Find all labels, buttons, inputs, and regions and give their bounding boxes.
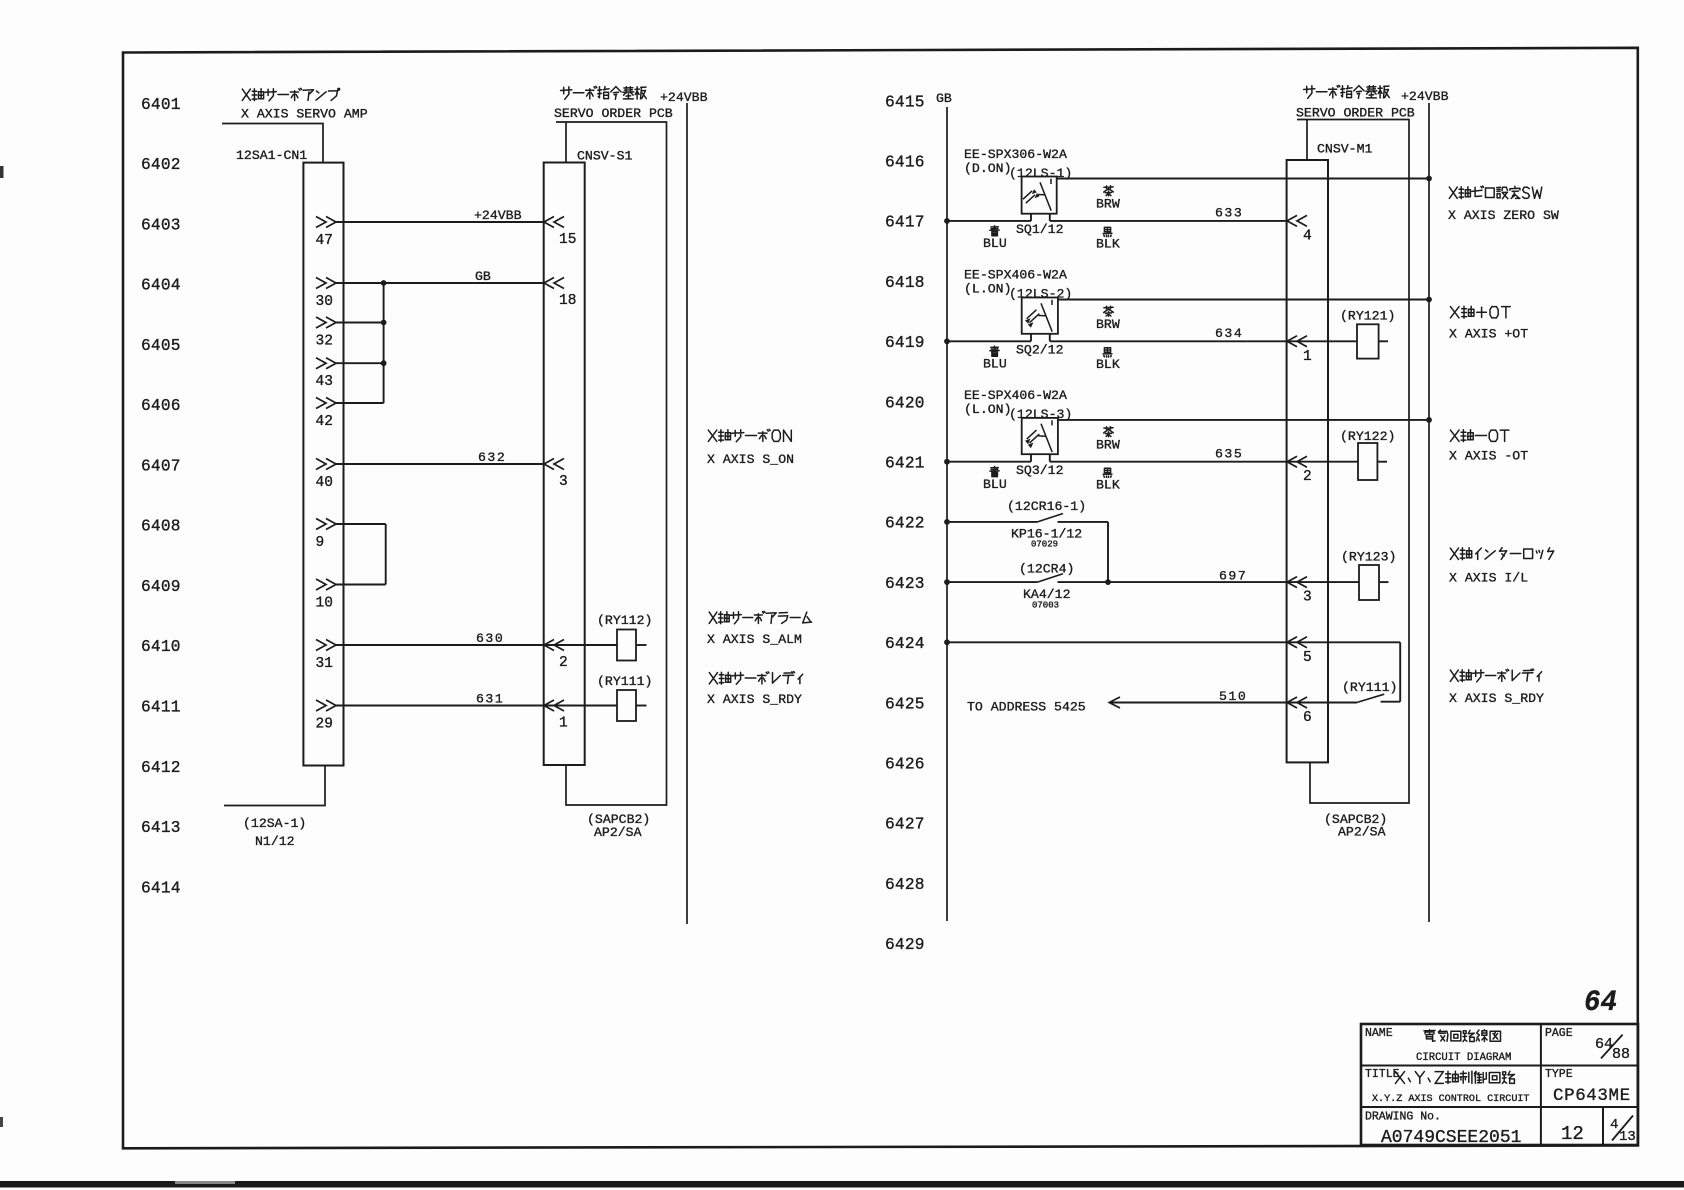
svg-text:(RY111): (RY111) bbox=[597, 674, 652, 689]
svg-text:3: 3 bbox=[559, 474, 568, 490]
svg-text:(RY111): (RY111) bbox=[1342, 680, 1397, 695]
svg-text:6417: 6417 bbox=[885, 214, 925, 232]
GB bus (right half) bbox=[946, 107, 948, 921]
wire pin5 loop down bbox=[1399, 642, 1401, 701]
wire color labels SQ1 bbox=[1104, 186, 1114, 196]
wire 635 BLK SQ3 to pin2 bbox=[1049, 454, 1051, 462]
svg-text:X.Y.Z AXIS CONTROL CIRCUIT: X.Y.Z AXIS CONTROL CIRCUIT bbox=[1372, 1094, 1530, 1105]
svg-text:6410: 6410 bbox=[141, 638, 181, 656]
svg-text:TYPE: TYPE bbox=[1545, 1068, 1573, 1081]
servo amp outline bottom bbox=[224, 766, 325, 806]
wire bus pins30-42 bbox=[383, 283, 385, 403]
svg-text:633: 633 bbox=[1215, 206, 1243, 221]
svg-text:6401: 6401 bbox=[141, 96, 181, 114]
svg-text:AP2/SA: AP2/SA bbox=[1338, 825, 1386, 840]
svg-text:(12CR16-1): (12CR16-1) bbox=[1007, 499, 1086, 514]
svg-text:6413: 6413 bbox=[141, 819, 181, 837]
svg-text:635: 635 bbox=[1215, 446, 1243, 461]
svg-text:6416: 6416 bbox=[885, 154, 925, 172]
svg-text:CIRCUIT DIAGRAM: CIRCUIT DIAGRAM bbox=[1416, 1052, 1511, 1064]
title block frame bbox=[1361, 1024, 1638, 1145]
junction node pin30 bbox=[381, 280, 387, 286]
svg-text:X AXIS +OT: X AXIS +OT bbox=[1449, 327, 1528, 342]
servo order PCB label (left) bbox=[561, 86, 647, 99]
servo order PCB outline (left) bbox=[556, 122, 667, 805]
svg-text:SQ2/12: SQ2/12 bbox=[1016, 342, 1063, 357]
wire pin9 stub bbox=[336, 523, 386, 525]
svg-text:EE-SPX406-W2A: EE-SPX406-W2A bbox=[964, 388, 1067, 403]
svg-text:6421: 6421 bbox=[885, 455, 925, 473]
wire pin32 stub bbox=[336, 322, 384, 324]
svg-text:6419: 6419 bbox=[885, 334, 925, 352]
svg-text:BLU: BLU bbox=[983, 236, 1007, 251]
pin 1 of CNSV-S1 bbox=[544, 700, 564, 711]
svg-text:6426: 6426 bbox=[885, 756, 925, 774]
pin 10 of 12SA1-CN1 bbox=[316, 579, 336, 590]
svg-text:NAME: NAME bbox=[1365, 1027, 1393, 1040]
wire SQ2 top to +24VBB bus bbox=[1058, 299, 1429, 301]
pin 18 of CNSV-S1 bbox=[544, 278, 564, 289]
pin 30 of 12SA1-CN1 bbox=[316, 278, 336, 289]
junction node pin32 bbox=[381, 320, 387, 326]
svg-text:(L.ON): (L.ON) bbox=[964, 402, 1011, 417]
svg-text:EE-SPX306-W2A: EE-SPX306-W2A bbox=[964, 147, 1067, 162]
wire 510 to address 5425 bbox=[1109, 702, 1357, 704]
svg-text:X AXIS -OT: X AXIS -OT bbox=[1449, 449, 1528, 464]
wire BLU SQ3 6421 bbox=[947, 461, 1031, 463]
junction 6423 loop bbox=[1105, 579, 1111, 585]
pin 43 of 12SA1-CN1 bbox=[316, 358, 336, 369]
svg-text:BLU: BLU bbox=[983, 477, 1007, 492]
wire 697 to pin3 bbox=[1058, 581, 1288, 583]
pin 6 of CNSV-M1 bbox=[1287, 697, 1307, 708]
junction GB 6419 bbox=[944, 338, 950, 344]
svg-text:43: 43 bbox=[316, 374, 333, 390]
svg-text:(12CR4): (12CR4) bbox=[1019, 562, 1074, 577]
svg-text:5: 5 bbox=[1303, 650, 1312, 666]
svg-text:X AXIS S_ALM: X AXIS S_ALM bbox=[707, 632, 802, 647]
svg-text:PAGE: PAGE bbox=[1545, 1027, 1573, 1040]
svg-text:X AXIS I/L: X AXIS I/L bbox=[1449, 571, 1528, 586]
wire pin10 stub bbox=[336, 584, 386, 586]
junction node pin43 bbox=[381, 360, 387, 366]
svg-text:07029: 07029 bbox=[1031, 540, 1058, 550]
svg-text:18: 18 bbox=[559, 293, 576, 309]
svg-text:+24VBB: +24VBB bbox=[660, 90, 708, 105]
pin 4 of CNSV-M1 bbox=[1287, 215, 1307, 226]
svg-text:SQ3/12: SQ3/12 bbox=[1016, 463, 1063, 478]
junction on +24VBB bus (6418) bbox=[1426, 297, 1432, 303]
wire color labels SQ3 bbox=[1104, 427, 1114, 437]
junction GB 6423 bbox=[1037, 574, 1063, 582]
svg-text:X AXIS SERVO AMP: X AXIS SERVO AMP bbox=[241, 107, 368, 122]
svg-text:DRAWING No.: DRAWING No. bbox=[1365, 1111, 1441, 1124]
+24VBB bus (right half) bbox=[1428, 103, 1430, 922]
svg-text:6429: 6429 bbox=[885, 936, 925, 954]
label X axis +OT bbox=[1450, 306, 1510, 318]
svg-text:SERVO ORDER PCB: SERVO ORDER PCB bbox=[1296, 106, 1415, 121]
wire 630 6410 bbox=[336, 644, 617, 646]
svg-text:6403: 6403 bbox=[141, 216, 181, 234]
svg-text:BLK: BLK bbox=[1096, 237, 1120, 252]
svg-text:6405: 6405 bbox=[141, 337, 181, 355]
svg-text:(L.ON): (L.ON) bbox=[964, 282, 1011, 297]
wire +24VBB 6403 bbox=[336, 221, 544, 223]
svg-text:6428: 6428 bbox=[885, 876, 925, 894]
svg-text:(RY112): (RY112) bbox=[597, 613, 652, 628]
label X axis zero SW bbox=[1449, 186, 1542, 199]
svg-text:1: 1 bbox=[1303, 349, 1312, 365]
svg-text:(12SA-1): (12SA-1) bbox=[243, 816, 306, 831]
svg-text:12: 12 bbox=[1561, 1123, 1584, 1145]
svg-text:A0749CSEE2051: A0749CSEE2051 bbox=[1381, 1128, 1521, 1148]
svg-text:632: 632 bbox=[478, 450, 506, 465]
svg-text:SQ1/12: SQ1/12 bbox=[1016, 222, 1063, 237]
svg-text:31: 31 bbox=[316, 656, 333, 672]
svg-text:40: 40 bbox=[316, 475, 333, 491]
svg-text:BLU: BLU bbox=[983, 356, 1007, 371]
wire pin43 stub bbox=[336, 362, 384, 364]
pin 32 of 12SA1-CN1 bbox=[316, 317, 336, 328]
label X axis -OT bbox=[1450, 430, 1509, 442]
pin 9 of 12SA1-CN1 bbox=[316, 519, 336, 530]
svg-text:47: 47 bbox=[316, 233, 333, 249]
svg-text:6424: 6424 bbox=[885, 635, 925, 653]
pin 42 of 12SA1-CN1 bbox=[316, 398, 336, 409]
svg-text:X AXIS S_RDY: X AXIS S_RDY bbox=[1449, 691, 1544, 706]
svg-text:631: 631 bbox=[476, 692, 504, 707]
svg-text:(RY123): (RY123) bbox=[1341, 550, 1396, 565]
svg-text:6: 6 bbox=[1303, 710, 1312, 726]
svg-text:BRW: BRW bbox=[1096, 317, 1120, 332]
wire GB 6404 bbox=[336, 282, 544, 284]
svg-text:6420: 6420 bbox=[885, 394, 925, 412]
pin 3 of CNSV-M1 bbox=[1287, 577, 1307, 588]
wire 634 BLK SQ2 to pin1 bbox=[1049, 334, 1051, 342]
svg-text:TO ADDRESS 5425: TO ADDRESS 5425 bbox=[967, 700, 1086, 715]
svg-text:CNSV-S1: CNSV-S1 bbox=[577, 149, 632, 164]
svg-text:64: 64 bbox=[1584, 986, 1617, 1020]
svg-text:30: 30 bbox=[316, 294, 333, 310]
svg-text:X AXIS S_RDY: X AXIS S_RDY bbox=[707, 692, 802, 707]
+24VBB bus (left half) bbox=[686, 103, 688, 924]
wire 633 BLK SQ1 to pin4 bbox=[1049, 214, 1051, 221]
svg-text:N1/12: N1/12 bbox=[255, 834, 295, 849]
svg-text:+24VBB: +24VBB bbox=[474, 208, 522, 223]
pin 29 of 12SA1-CN1 bbox=[316, 700, 336, 711]
svg-text:CNSV-M1: CNSV-M1 bbox=[1317, 142, 1372, 157]
svg-text:X AXIS S_ON: X AXIS S_ON bbox=[707, 452, 794, 467]
X axis servo amp label bbox=[242, 88, 337, 101]
pin 47 of 12SA1-CN1 bbox=[316, 217, 336, 228]
svg-text:697: 697 bbox=[1219, 569, 1247, 584]
svg-text:2: 2 bbox=[559, 655, 568, 671]
wire pin42 stub bbox=[336, 402, 384, 404]
junction GB 6421 bbox=[944, 459, 950, 465]
svg-text:4: 4 bbox=[1610, 1117, 1618, 1133]
limit switch SQ3/12 symbol bbox=[1022, 418, 1058, 454]
svg-text:CP643ME: CP643ME bbox=[1553, 1086, 1631, 1106]
servo order PCB label (right) bbox=[1304, 85, 1390, 98]
svg-text:AP2/SA: AP2/SA bbox=[594, 825, 642, 840]
svg-text:GB: GB bbox=[475, 269, 491, 284]
svg-text:12SA1-CN1: 12SA1-CN1 bbox=[236, 148, 307, 163]
pin 31 of 12SA1-CN1 bbox=[316, 640, 336, 651]
svg-text:3: 3 bbox=[1303, 590, 1312, 606]
svg-text:6407: 6407 bbox=[141, 457, 181, 475]
label X axis S_RDY (right) bbox=[1450, 669, 1541, 682]
junction GB 6417 bbox=[944, 218, 950, 224]
svg-text:634: 634 bbox=[1215, 326, 1243, 341]
wire 632 6407 bbox=[336, 463, 544, 465]
svg-text:6425: 6425 bbox=[885, 695, 925, 713]
svg-text:BLK: BLK bbox=[1096, 477, 1120, 492]
wire color labels SQ2 bbox=[1104, 306, 1114, 316]
svg-text:1: 1 bbox=[559, 716, 568, 732]
wire SQ3 top to +24VBB bus bbox=[1058, 419, 1429, 421]
svg-text:6402: 6402 bbox=[141, 156, 181, 174]
limit switch SQ1/12 symbol bbox=[1022, 177, 1057, 214]
svg-text:6404: 6404 bbox=[141, 277, 181, 295]
scan edge strip bbox=[0, 1181, 1684, 1188]
pin 15 of CNSV-S1 bbox=[544, 217, 564, 228]
junction GB 6422 bbox=[1037, 514, 1063, 522]
pin 1 of CNSV-M1 bbox=[1287, 336, 1307, 347]
pin 3 of CNSV-S1 bbox=[544, 459, 564, 470]
svg-text:9: 9 bbox=[316, 535, 325, 551]
svg-text:6415: 6415 bbox=[885, 93, 925, 111]
svg-text:88: 88 bbox=[1612, 1046, 1630, 1063]
wire jumper pins9-10 bbox=[385, 524, 387, 585]
label X axis S_RDY (left) bbox=[709, 672, 802, 685]
svg-text:15: 15 bbox=[559, 232, 576, 248]
svg-text:+24VBB: +24VBB bbox=[1401, 89, 1449, 104]
svg-text:6408: 6408 bbox=[141, 518, 181, 536]
pin 5 of CNSV-M1 bbox=[1287, 637, 1307, 648]
svg-text:2: 2 bbox=[1303, 469, 1312, 485]
svg-text:6418: 6418 bbox=[885, 274, 925, 292]
pin 2 of CNSV-M1 bbox=[1287, 456, 1307, 467]
svg-text:10: 10 bbox=[316, 596, 333, 612]
svg-text:6406: 6406 bbox=[141, 397, 181, 415]
svg-text:(D.ON): (D.ON) bbox=[964, 161, 1011, 176]
connector 12SA1-CN1 bbox=[303, 163, 343, 766]
svg-text:32: 32 bbox=[316, 334, 333, 350]
svg-text:SERVO ORDER PCB: SERVO ORDER PCB bbox=[554, 106, 673, 121]
wire BLU SQ1 6417 bbox=[947, 220, 1031, 222]
pin 2 of CNSV-S1 bbox=[544, 640, 564, 651]
svg-text:630: 630 bbox=[476, 631, 504, 646]
svg-text:07003: 07003 bbox=[1032, 601, 1059, 611]
svg-text:510: 510 bbox=[1219, 689, 1247, 704]
connector CNSV-S1 bbox=[544, 163, 585, 766]
svg-text:(RY121): (RY121) bbox=[1340, 308, 1395, 323]
wire loop 6422-6423 bbox=[1107, 522, 1109, 582]
svg-text:BRW: BRW bbox=[1096, 437, 1120, 452]
svg-text:6423: 6423 bbox=[885, 575, 925, 593]
scan specks bbox=[0, 166, 4, 178]
wire SQ1 top to +24VBB bus bbox=[1057, 178, 1429, 180]
label X axis interlock bbox=[1450, 548, 1553, 560]
pin 40 of 12SA1-CN1 bbox=[316, 459, 336, 470]
svg-text:BLK: BLK bbox=[1096, 357, 1120, 372]
svg-text:6409: 6409 bbox=[141, 578, 181, 596]
svg-text:EE-SPX406-W2A: EE-SPX406-W2A bbox=[964, 268, 1067, 283]
svg-text:6427: 6427 bbox=[885, 816, 925, 834]
svg-text:6414: 6414 bbox=[141, 879, 181, 897]
wire 631 6411 bbox=[336, 705, 617, 707]
limit switch SQ2/12 symbol bbox=[1022, 298, 1058, 334]
label X axis S_ON bbox=[708, 429, 791, 442]
wire BLU SQ2 6419 bbox=[947, 340, 1031, 342]
svg-text:4: 4 bbox=[1303, 228, 1312, 244]
connector CNSV-M1 bbox=[1287, 160, 1328, 762]
svg-text:X AXIS ZERO SW: X AXIS ZERO SW bbox=[1448, 208, 1559, 223]
svg-text:TITLE: TITLE bbox=[1365, 1068, 1400, 1081]
svg-text:6411: 6411 bbox=[141, 699, 181, 717]
servo amp outline top bbox=[222, 124, 323, 163]
svg-text:BRW: BRW bbox=[1096, 197, 1120, 212]
svg-text:6412: 6412 bbox=[141, 759, 181, 777]
svg-text:13: 13 bbox=[1619, 1129, 1636, 1145]
wire 6424 GB to pin5 bbox=[947, 641, 1400, 643]
svg-text:29: 29 bbox=[316, 717, 333, 733]
junction on +24VBB bus (6420) bbox=[1426, 417, 1432, 423]
label X axis S_ALM bbox=[709, 611, 811, 624]
junction on +24VBB bus (6416) bbox=[1426, 176, 1432, 182]
svg-text:6422: 6422 bbox=[885, 515, 925, 533]
svg-text:GB: GB bbox=[936, 91, 952, 106]
servo order PCB outline (right) bbox=[1297, 120, 1409, 804]
svg-text:64: 64 bbox=[1595, 1036, 1613, 1053]
svg-text:(RY122): (RY122) bbox=[1340, 429, 1395, 444]
svg-text:42: 42 bbox=[316, 414, 333, 430]
